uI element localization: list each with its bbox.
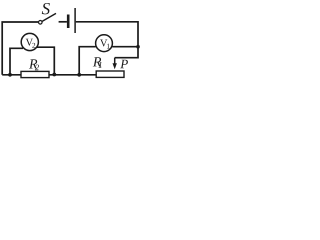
voltmeter V1 left wire down to bottom bbox=[79, 47, 96, 75]
battery short plate bbox=[67, 15, 70, 29]
voltmeter V1 right wire bbox=[112, 46, 138, 48]
node dot V2 right leg bbox=[52, 73, 56, 77]
node dot V2 left leg bbox=[8, 73, 12, 77]
switch S pivot bbox=[39, 21, 43, 25]
label P bbox=[120, 60, 128, 69]
voltmeter V2 left wire loop bbox=[10, 48, 23, 75]
node dot V1 left leg bbox=[77, 73, 81, 77]
voltmeter U V2 bbox=[21, 33, 38, 50]
voltmeter U V1 bbox=[96, 35, 113, 52]
wire switch fixed contact to battery bbox=[59, 21, 67, 23]
voltmeter V2 right wire loop bbox=[37, 47, 55, 74]
label R2 bbox=[29, 59, 37, 68]
slider P arrow bbox=[114, 58, 116, 64]
wire battery to top-right corner, right edge, across to slider bbox=[76, 22, 138, 58]
battery long plate bbox=[74, 8, 76, 33]
bottom wire bbox=[2, 74, 96, 76]
label S bbox=[42, 3, 50, 14]
resistor R2 body bbox=[21, 71, 49, 77]
label R1 bbox=[93, 57, 101, 66]
wire left edge and top-left segment bbox=[2, 22, 38, 75]
node junction dot right bbox=[136, 45, 140, 49]
rheostat R1 body bbox=[96, 71, 124, 77]
switch S blade bbox=[42, 13, 56, 21]
